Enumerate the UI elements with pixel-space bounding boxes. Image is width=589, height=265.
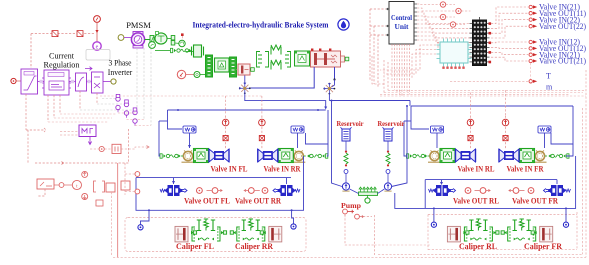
svg-text:m: m xyxy=(546,83,553,92)
signal port Valve OUT(21) xyxy=(491,57,528,61)
wire control unit outputs right xyxy=(414,3,417,5)
spring M upper xyxy=(271,45,281,55)
wire pumps to manifold xyxy=(350,189,359,194)
svg-text:Valve OUT(22): Valve OUT(22) xyxy=(539,22,586,31)
node source circle top xyxy=(94,16,101,23)
wire red vertical left of calipers xyxy=(117,163,119,257)
wire inner caliper border right xyxy=(576,212,578,250)
chip red pads xyxy=(442,67,444,69)
wire rail A drop left reservoir xyxy=(332,101,343,187)
wire right border vertical xyxy=(585,70,587,257)
block wheel torque subsystem xyxy=(79,125,96,137)
block saturation xyxy=(21,69,38,94)
node small xyxy=(59,183,64,188)
wire caliper drops left xyxy=(141,210,150,224)
svg-text:Regulation: Regulation xyxy=(44,61,80,70)
motor shaft right xyxy=(145,39,150,41)
signal chain valve xyxy=(259,116,266,149)
wire RL loop xyxy=(411,106,429,129)
pedal cylinder xyxy=(238,64,250,75)
wire control feed to pump xyxy=(345,215,374,246)
svg-text:Caliper RR: Caliper RR xyxy=(235,242,273,251)
rotary load JM xyxy=(155,33,167,44)
wire sensor rails xyxy=(118,112,137,114)
connector red pins xyxy=(489,22,492,25)
input port circle xyxy=(11,78,16,83)
spring M lower xyxy=(271,60,281,70)
valve block Valve IN FL xyxy=(160,154,181,158)
node diamond up xyxy=(82,171,88,177)
wire pedal link xyxy=(200,74,205,76)
master cylinder xyxy=(311,51,341,67)
valve block Valve OUT FR xyxy=(544,185,571,196)
svg-text:Valve IN FR: Valve IN FR xyxy=(507,165,544,174)
valve block Valve OUT RR xyxy=(273,185,300,196)
svg-text:Valve IN RL: Valve IN RL xyxy=(458,165,495,174)
speed sensor ports xyxy=(116,97,120,101)
sensor box 1 xyxy=(52,31,58,37)
pump torque port xyxy=(355,214,360,219)
motor PMSM xyxy=(133,32,143,35)
svg-text:Valve OUT FR: Valve OUT FR xyxy=(512,197,558,206)
wire sensor feed valve xyxy=(128,129,130,163)
wire booster to pedal cylinder xyxy=(237,69,239,71)
block modulator xyxy=(92,72,104,93)
booster valve center xyxy=(215,58,230,72)
wire FR loop xyxy=(551,106,573,144)
svg-text:Current: Current xyxy=(49,52,75,61)
node diamond down xyxy=(82,194,88,200)
spring bracket left xyxy=(257,52,263,68)
svg-text:Reservoir: Reservoir xyxy=(337,119,365,128)
block limiter xyxy=(76,73,87,91)
wire FL loop xyxy=(168,110,183,129)
wire torque chain xyxy=(90,148,99,150)
pedal input port xyxy=(177,70,185,78)
control unit input ticks xyxy=(386,9,389,35)
signal port Valve IN(12) xyxy=(491,41,528,44)
valve block Valve OUT RL xyxy=(429,185,456,196)
screw chain glyphs xyxy=(171,48,192,52)
wire chip dashed bundle xyxy=(380,45,436,70)
wire rail A to right rail xyxy=(409,101,411,107)
wire star1 down to rail A xyxy=(328,93,330,101)
spring bracket right xyxy=(285,52,291,68)
gear reducer xyxy=(171,36,175,40)
ports Valve OUT FL xyxy=(197,188,203,194)
signal port Valve IN(22) xyxy=(491,20,528,34)
wire control unit bottom outputs xyxy=(391,44,393,88)
wire block links xyxy=(38,81,45,83)
output port inverter xyxy=(103,81,111,83)
signal chain valve xyxy=(467,116,474,149)
connector block xyxy=(473,20,487,66)
ports Valve OUT RR xyxy=(262,188,268,194)
icon droplet xyxy=(338,19,349,30)
wire reservoir stems xyxy=(345,141,347,151)
wire right reservoir column xyxy=(392,106,408,187)
signal port Valve OUT(12) xyxy=(491,47,528,50)
gray box below node xyxy=(86,50,110,61)
caliper Caliper FR xyxy=(540,226,553,242)
wire main rail A right xyxy=(329,100,410,102)
wire rail B left half xyxy=(168,109,326,111)
reservoir 2 xyxy=(383,127,394,141)
svg-text:PMSM: PMSM xyxy=(126,20,151,30)
wire long feedback bundle right xyxy=(384,92,583,94)
wire dashed horizontal top-left xyxy=(31,33,94,35)
wire master cylinder output B xyxy=(334,67,336,80)
pump motor port xyxy=(365,198,370,203)
wire star2 to rail B xyxy=(245,93,326,109)
wire dashed vertical left xyxy=(30,34,32,68)
block Control Unit xyxy=(389,2,414,45)
wire long feedback m-line xyxy=(100,95,262,97)
block PI controller xyxy=(44,70,69,95)
port caliper FL xyxy=(138,225,143,230)
wire subsystem feedback down xyxy=(111,192,113,255)
wire subsystem dashed inputs xyxy=(60,131,79,133)
wire control feeds to valve chains xyxy=(225,96,227,115)
svg-text:Caliper FR: Caliper FR xyxy=(524,242,562,251)
signal chain valve xyxy=(502,116,509,149)
wire feedback dashed bus left xyxy=(26,129,45,131)
caliper Caliper RR xyxy=(269,226,282,242)
svg-text:3 Phase: 3 Phase xyxy=(109,59,132,68)
wire rail C right half xyxy=(411,105,573,107)
svg-text:Inverter: Inverter xyxy=(108,68,133,77)
wire star2 stem xyxy=(244,76,246,84)
pump manifold xyxy=(359,192,378,195)
spring 2 xyxy=(386,151,390,167)
connector side pins xyxy=(470,23,473,25)
booster cylinder right xyxy=(230,57,237,77)
svg-text:Control: Control xyxy=(391,13,412,22)
svg-text:Integrated-electro-hydraulic B: Integrated-electro-hydraulic Brake Syste… xyxy=(193,20,330,30)
valve block Valve OUT FL xyxy=(160,185,187,196)
block brake demand xyxy=(37,179,54,189)
block tire 1 xyxy=(106,183,115,192)
wire subsystem links xyxy=(54,184,59,186)
wire RR loop xyxy=(306,110,329,144)
wire source down xyxy=(96,22,98,41)
wire bottom-left bus xyxy=(35,162,130,164)
master cylinder green pin xyxy=(345,57,349,61)
wire mid border vertical right xyxy=(582,108,584,254)
pump circle 1 xyxy=(342,183,349,191)
wire RL chain start xyxy=(404,121,407,156)
sensor circles right of control unit xyxy=(440,2,445,7)
svg-text:Valve IN FL: Valve IN FL xyxy=(211,165,248,174)
svg-text:Valve OUT RR: Valve OUT RR xyxy=(235,197,281,206)
motor input port xyxy=(118,35,124,41)
node wheel speed xyxy=(99,146,104,151)
wire FR chain end xyxy=(566,144,573,156)
wire T/m to right edge xyxy=(450,80,528,82)
ports Valve OUT FR xyxy=(528,188,534,194)
wire out loop left xyxy=(136,156,304,210)
wire label column link xyxy=(530,63,532,79)
signal port Valve IN(21) xyxy=(491,7,528,24)
svg-text:Valve IN RR: Valve IN RR xyxy=(264,165,301,174)
wire control unit inputs xyxy=(370,8,386,10)
port caliper RR xyxy=(291,224,296,229)
inertia node xyxy=(149,42,156,49)
node t xyxy=(72,180,81,189)
signal port Valve OUT(11) xyxy=(491,13,528,28)
pedal valve block xyxy=(295,51,310,66)
booster cylinder left xyxy=(206,55,213,77)
sensor box 2 xyxy=(77,31,83,37)
svg-text:Valve OUT(21): Valve OUT(21) xyxy=(539,57,586,66)
svg-text:Pump: Pump xyxy=(341,201,361,210)
block torque box xyxy=(112,144,121,153)
wire master cylinder output A xyxy=(249,67,314,88)
wire caliper FL border xyxy=(125,218,306,252)
wire feedback bus bottom xyxy=(113,256,586,258)
valve block Valve IN FR xyxy=(548,154,569,158)
wire caliper drops right xyxy=(433,208,435,221)
port caliper FR xyxy=(563,222,568,227)
wire motor stems xyxy=(136,48,138,113)
wire left ports xyxy=(135,172,140,177)
pump circle 2 xyxy=(384,183,391,191)
rotary spring node xyxy=(179,40,185,46)
flow splitter star 1 xyxy=(324,83,336,95)
caliper Caliper RL xyxy=(447,226,460,242)
block tire 2 xyxy=(121,181,130,190)
svg-text:Reservoir: Reservoir xyxy=(378,119,406,128)
valve block Valve IN RR xyxy=(307,154,328,158)
wire RR chain end xyxy=(327,144,328,156)
signal chain valve xyxy=(222,116,229,149)
ports Valve OUT RL xyxy=(465,188,471,194)
wire out loop right xyxy=(424,180,426,209)
spring 1 xyxy=(344,151,348,167)
svg-text:T: T xyxy=(546,72,551,81)
wire feedback dashed below blocks xyxy=(25,94,27,130)
valve block Valve IN RL xyxy=(407,154,428,158)
check valve nodes xyxy=(344,170,348,174)
red pin top xyxy=(181,33,184,36)
svg-text:Valve OUT FL: Valve OUT FL xyxy=(184,197,230,206)
wire rail2 corner FL xyxy=(158,121,160,152)
wire input xyxy=(16,80,21,82)
flow splitter star 2 xyxy=(239,82,251,94)
signal port Valve IN(21) xyxy=(491,52,528,54)
port caliper RL xyxy=(431,222,436,227)
svg-text:Unit: Unit xyxy=(395,22,410,31)
motor electrical node xyxy=(93,42,101,50)
caliper Caliper FL xyxy=(175,226,188,242)
ballscrew block xyxy=(194,45,202,57)
reservoir 1 xyxy=(341,127,352,141)
signal port Valve OUT(22) xyxy=(491,26,528,38)
microcontroller chip xyxy=(440,42,468,63)
svg-text:Valve OUT RL: Valve OUT RL xyxy=(453,197,499,206)
signal port T xyxy=(529,80,532,83)
pump signal input xyxy=(343,209,348,214)
svg-text:Caliper RL: Caliper RL xyxy=(459,242,497,251)
bracket assembly xyxy=(94,181,105,192)
wire purple arrow into inverter xyxy=(85,67,92,71)
svg-text:Caliper FL: Caliper FL xyxy=(176,242,214,251)
